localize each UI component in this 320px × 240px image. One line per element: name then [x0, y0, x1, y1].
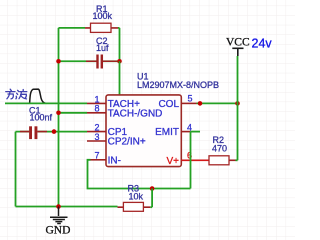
junction at pin8/rail [56, 111, 61, 116]
svg-text:V+: V+ [166, 156, 179, 167]
capacitor C1 [16, 126, 55, 139]
pin stub 2 CP1 [87, 131, 106, 133]
wire: left vertical rail x=58.5 from R1 down to GND rail [58, 28, 60, 207]
pin stub 1 TACH+ [87, 102, 106, 104]
junction at COL stub [198, 101, 203, 106]
svg-text:10k: 10k [129, 191, 144, 201]
junction GND rail [56, 204, 61, 209]
pin stub 6 V+ highlighted [181, 159, 199, 161]
svg-text:LM2907MX-8/NOPB: LM2907MX-8/NOPB [137, 80, 219, 90]
resistor R1 [85, 23, 118, 32]
ground symbol [50, 207, 68, 224]
junction R3 top node [150, 186, 155, 191]
svg-text:100nf: 100nf [30, 113, 53, 123]
wire: GND rail [16, 206, 118, 208]
wire: C1 to pin 2 [54, 131, 87, 133]
pin stub 3 CP2 [87, 140, 106, 142]
svg-text:IN-: IN- [108, 155, 121, 166]
wire: node down to R3 right lead [151, 189, 153, 208]
pin stub 8 TACH- [87, 112, 106, 114]
wire: pin 7 down and across to R3 node [88, 160, 191, 189]
svg-text:CP2/IN+: CP2/IN+ [108, 137, 146, 148]
power VCC symbol [232, 48, 243, 56]
svg-text:TACH-/GND: TACH-/GND [108, 108, 163, 119]
junction at VCC rail [235, 101, 240, 106]
junction at C2 right [117, 59, 122, 64]
resistor R2 [199, 156, 238, 165]
resistor R3 [118, 202, 153, 211]
svg-text:3: 3 [94, 132, 99, 142]
svg-text:GND: GND [46, 225, 71, 237]
pin stub 5 COL [181, 102, 196, 104]
wire: COL to VCC rail [197, 102, 238, 104]
wire: R1 left lead wire from vertical rail [59, 27, 86, 29]
wire: EMIT down to R3 node line [190, 132, 192, 189]
svg-text:100k: 100k [93, 11, 113, 21]
pin stub 7 IN- [91, 159, 107, 161]
wire: EMIT short stub right [190, 131, 200, 133]
square wave input pulse [30, 89, 47, 103]
svg-text:470: 470 [212, 144, 227, 154]
svg-text:7: 7 [94, 151, 99, 161]
capacitor C2 [59, 55, 120, 69]
wire: C2 right vertical down to IC top [119, 61, 121, 95]
svg-text:1uf: 1uf [96, 43, 109, 53]
wire: C1 left vertical down to GND rail [15, 132, 17, 207]
svg-text:8: 8 [94, 104, 99, 114]
junction on C1 wire [52, 129, 57, 134]
junction at C2 left [56, 59, 61, 64]
wire: input wire to pin 1 [5, 102, 87, 104]
wire: R1 right to C2 right vertical [118, 28, 120, 61]
label 方波 (square wave) hand-drawn glyphs [6, 89, 27, 99]
svg-text:5: 5 [188, 94, 193, 104]
wire: pin 8 wire [59, 112, 88, 114]
svg-text:VCC: VCC [226, 37, 250, 49]
svg-text:COL: COL [158, 99, 179, 110]
svg-text:EMIT: EMIT [155, 127, 179, 138]
pin stub 4 EMIT [181, 131, 190, 133]
op IC U1 LM2907 [106, 95, 181, 167]
wire: VCC vertical down to R2 [237, 56, 239, 160]
svg-text:24v: 24v [252, 37, 273, 51]
